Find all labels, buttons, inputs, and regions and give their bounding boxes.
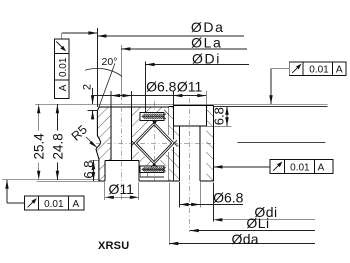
svg-text:XRSU: XRSU <box>98 240 129 252</box>
centerline roller <box>153 101 155 181</box>
svg-text:2: 2 <box>82 84 94 90</box>
right inner ring hatched triangle under roller <box>155 152 169 166</box>
dimension 6.8 left counterbore depth <box>89 159 99 161</box>
extension lines Ø6.8 top <box>110 91 112 107</box>
roller (rotated square) <box>137 125 172 162</box>
left ring outline <box>96 107 101 181</box>
20 degree arc <box>85 68 122 76</box>
lower land lines under bottom box <box>140 176 164 178</box>
right inner ring hatched wall upper <box>169 107 174 140</box>
svg-text:ØDi: ØDi <box>192 51 221 67</box>
white raceway pocket wedge <box>173 141 176 148</box>
centerline right bolt hole <box>189 98 191 232</box>
svg-text:A: A <box>58 84 69 91</box>
dimension Ø11 bottom <box>104 182 106 200</box>
raceway line upper-right <box>152 120 177 146</box>
top extension line full width <box>35 103 328 105</box>
datum surface line extended right <box>238 142 326 144</box>
dimension Ødi <box>212 183 214 222</box>
svg-text:A: A <box>72 199 79 210</box>
dimension 6.8 right counterbore depth <box>206 125 231 127</box>
extension line ØDa at x=97.4 <box>96 28 98 107</box>
inner ring wall top edge <box>169 106 174 108</box>
dimension line top bolt holes <box>93 95 207 97</box>
bottom-left extension line <box>2 179 99 181</box>
dimension 2 <box>92 88 94 104</box>
svg-text:ØLi: ØLi <box>246 215 269 231</box>
dimension ØDa <box>97 35 244 37</box>
junction blob bottom <box>152 162 156 166</box>
20 degree construction line <box>98 63 115 110</box>
svg-text:24.8: 24.8 <box>51 133 66 159</box>
bottom roller cage box <box>140 166 166 172</box>
svg-text:Øda: Øda <box>232 231 259 247</box>
dimension 25.4 <box>38 104 40 180</box>
right ring right edge <box>213 106 215 181</box>
svg-text:Ø11: Ø11 <box>177 79 203 95</box>
right inner ring hatched wall lower <box>169 147 174 181</box>
svg-text:ØDa: ØDa <box>191 19 225 35</box>
dimension 24.8 <box>56 104 58 180</box>
centerline left bolt hole <box>120 45 122 96</box>
svg-text:A: A <box>318 162 325 173</box>
frame 3 leader <box>214 166 271 168</box>
svg-text:0.01: 0.01 <box>58 57 69 77</box>
dimension ØLa <box>121 48 247 50</box>
svg-text:ØLa: ØLa <box>191 35 222 51</box>
svg-text:0.01: 0.01 <box>290 162 310 173</box>
dimension Øda <box>168 183 170 246</box>
raceway line lower-right <box>151 140 177 167</box>
top roller cage box <box>140 112 166 120</box>
right bolt hole Ø6.8 walls <box>179 126 181 181</box>
raceway line upper-left <box>131 120 156 146</box>
left outer ring hatched section (left band) <box>96 107 111 181</box>
left counterbore Ø11 <box>104 160 106 181</box>
frame 4 leader <box>7 202 25 204</box>
svg-text:Ø6.8: Ø6.8 <box>213 190 244 206</box>
right ring top surface extension <box>214 106 328 108</box>
extension line ØDi at x=145.6 <box>145 61 147 112</box>
feature control frame 4 (bottom left, runout 0.01 A) <box>25 196 84 210</box>
svg-text:0.01: 0.01 <box>44 199 64 210</box>
svg-text:Ø11: Ø11 <box>108 181 134 197</box>
inner ring wall edges <box>168 107 170 135</box>
R5 leader <box>86 137 97 148</box>
left bolt hole Ø6.8 walls <box>110 107 112 160</box>
feature control frame 2 (top right, runout 0.01 A) <box>289 62 346 76</box>
ring gap slot line <box>164 110 169 115</box>
svg-text:6.8: 6.8 <box>81 161 96 179</box>
svg-text:A: A <box>336 65 343 76</box>
left outer ring hatched section (upper raceway wedge) <box>131 107 169 146</box>
feature control frame 1 (vertical, runout 0.01 A) <box>55 39 70 99</box>
right inner ring hatched strip right of counterbore <box>206 106 213 181</box>
centerline roller plane horizontal <box>96 142 215 144</box>
frame 2 leader <box>271 68 289 70</box>
svg-text:6.8: 6.8 <box>211 107 226 125</box>
dimension Ø6.8 bottom <box>179 182 181 208</box>
svg-text:20°: 20° <box>102 56 118 68</box>
extension lines Ø11 top <box>172 91 174 106</box>
feature control frame 3 (right, runout 0.01 A) <box>270 160 333 174</box>
svg-text:Ø6.8: Ø6.8 <box>146 79 177 95</box>
dimension ØLi <box>190 230 315 232</box>
raceway line lower-left <box>131 140 157 167</box>
right ring top surface <box>173 105 213 107</box>
right inner ring hatched sliver under counterbore <box>173 126 179 181</box>
junction blob top <box>153 121 157 125</box>
left outer ring hatched section (lower raceway wedge) <box>132 147 157 167</box>
right counterbore Ø11 <box>172 106 174 127</box>
frame 1 leader <box>61 33 63 39</box>
svg-text:25.4: 25.4 <box>32 133 47 160</box>
bottom surface segments <box>99 180 105 182</box>
dimension ØDi <box>146 64 249 66</box>
svg-text:0.01: 0.01 <box>309 65 329 76</box>
left ring top surface <box>99 106 169 108</box>
